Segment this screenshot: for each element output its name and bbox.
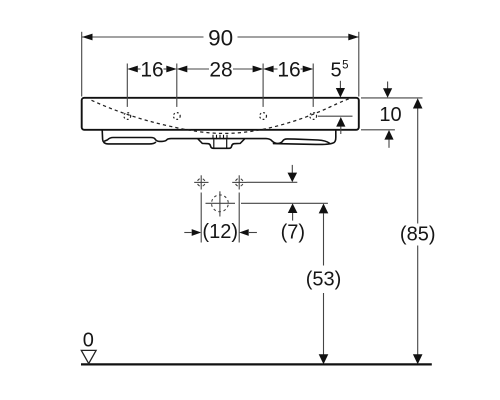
svg-text:10: 10 (379, 104, 401, 126)
svg-text:(7): (7) (281, 222, 305, 244)
svg-text:5: 5 (330, 60, 341, 82)
svg-text:16: 16 (277, 59, 300, 82)
svg-text:28: 28 (209, 59, 232, 82)
svg-text:(12): (12) (202, 221, 238, 243)
svg-text:5: 5 (342, 60, 348, 72)
svg-text:16: 16 (140, 59, 163, 82)
svg-text:0: 0 (83, 329, 94, 351)
svg-text:90: 90 (208, 26, 233, 51)
svg-text:(85): (85) (400, 223, 436, 245)
svg-text:(53): (53) (306, 268, 342, 290)
